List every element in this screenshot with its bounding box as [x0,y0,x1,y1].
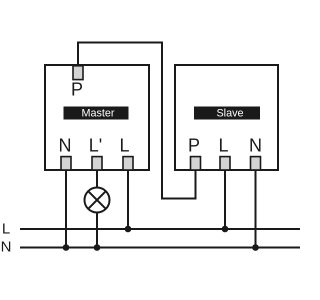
svg-text:Slave: Slave [216,108,243,120]
svg-text:P: P [71,80,83,100]
svg-text:P: P [188,136,200,156]
svg-text:N: N [59,136,72,156]
svg-text:L: L [218,136,228,156]
svg-text:L': L' [89,136,102,156]
svg-text:L: L [2,221,10,238]
svg-text:N: N [1,239,12,256]
svg-text:L: L [119,136,129,156]
svg-text:Master: Master [82,108,115,120]
svg-text:N: N [249,136,262,156]
